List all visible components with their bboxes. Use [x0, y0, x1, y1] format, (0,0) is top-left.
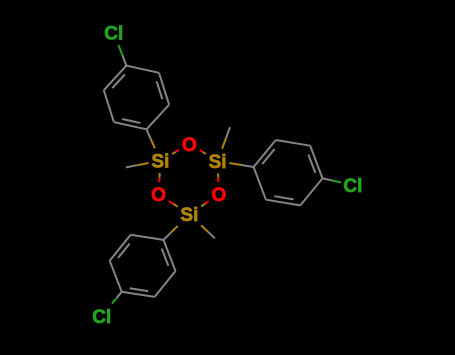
svg-text:Cl: Cl: [343, 176, 362, 197]
svg-text:Cl: Cl: [92, 307, 111, 328]
svg-text:O: O: [151, 185, 166, 206]
svg-text:O: O: [182, 135, 197, 156]
svg-text:Si: Si: [151, 152, 169, 173]
svg-text:Si: Si: [209, 152, 227, 173]
svg-text:Si: Si: [180, 205, 198, 226]
svg-text:O: O: [212, 185, 227, 206]
svg-text:Cl: Cl: [104, 24, 123, 45]
